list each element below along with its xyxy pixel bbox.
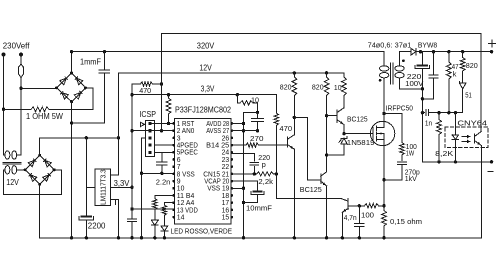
svg-text:3,3V: 3,3V xyxy=(114,179,131,188)
wire secondary bottom xyxy=(400,78,423,89)
wire LM1117 input from rect-12 xyxy=(86,186,95,188)
svg-text:14: 14 xyxy=(177,213,185,222)
svg-text:470: 470 xyxy=(279,124,292,133)
wire secondary return xyxy=(4,170,62,195)
svg-text:CNY64: CNY64 xyxy=(457,118,487,127)
wire source xyxy=(382,146,385,208)
diode 1N5819 xyxy=(327,137,375,156)
capacitor 220 100V xyxy=(405,52,430,91)
wire 3.3V vertical xyxy=(130,84,133,218)
wire pin28 AVDD xyxy=(232,123,244,125)
wire feedback left leg xyxy=(160,33,163,132)
resistor 820 (output) xyxy=(460,52,478,83)
wire mains left leg xyxy=(3,55,5,110)
wire ICSP pin4 PGED line xyxy=(155,144,174,146)
label LED ROSSO,VERDE xyxy=(171,226,233,235)
transformer T2 secondary xyxy=(368,41,412,78)
wire LM1117 gnd xyxy=(110,199,120,239)
svg-text:270: 270 xyxy=(250,134,264,143)
resistor 270 (B14 pin25) xyxy=(232,134,288,147)
capacitor 2.2n xyxy=(156,152,171,186)
opto LED xyxy=(452,113,458,162)
transformer T1 core xyxy=(3,162,21,164)
resistor 100 (sense) xyxy=(358,204,384,220)
diode zener 51 xyxy=(460,81,472,112)
wire B1 plus to 320V rail xyxy=(70,50,73,73)
wire 1ohm to bridge B1 AC2 xyxy=(86,88,93,110)
resistor 10 (AVDD) xyxy=(236,93,260,114)
resistor 1 OHM 5W xyxy=(2,107,93,121)
svg-text:LED ROSSO,VERDE: LED ROSSO,VERDE xyxy=(171,226,233,235)
resistor 100 1W snubber xyxy=(384,114,417,161)
opto arrows xyxy=(462,135,471,143)
wire CN15 node to Q4 xyxy=(276,174,341,199)
svg-text:BC125: BC125 xyxy=(300,185,322,194)
svg-text:100V: 100V xyxy=(405,79,424,88)
resistor + LED green (pin12) xyxy=(161,203,174,240)
wire pin27 AVSS xyxy=(232,130,258,132)
transistor Q1 xyxy=(259,117,296,239)
svg-text:820: 820 xyxy=(466,61,478,70)
svg-text:BC125: BC125 xyxy=(347,114,368,123)
opto phototransistor xyxy=(475,132,482,238)
svg-text:IRFPC50: IRFPC50 xyxy=(386,103,413,112)
resistor 2,2k (CN15) xyxy=(232,172,278,186)
svg-text:820: 820 xyxy=(280,82,292,91)
bridge rectifier B1 xyxy=(55,72,87,104)
svg-text:10mmF: 10mmF xyxy=(246,203,272,212)
svg-text:2,2k: 2,2k xyxy=(258,177,273,186)
wire Q3 emitter to gate xyxy=(344,133,370,135)
wire ICSP pin3 gnd drop xyxy=(140,138,146,240)
wire fuse leg to bridge B1 AC1 xyxy=(19,87,56,90)
svg-text:1mmF: 1mmF xyxy=(80,58,101,67)
svg-text:15: 15 xyxy=(222,213,230,222)
resistor + LED red (pin11) xyxy=(151,196,173,240)
node mains terminal L (230Veff) xyxy=(2,41,30,56)
wire feedback top rail xyxy=(162,32,482,34)
wire secondary return vertical xyxy=(421,89,424,162)
capacitor 100n 3.3V xyxy=(127,219,136,240)
transformer T1 secondary xyxy=(4,166,26,187)
wire 3.3V rail xyxy=(132,84,276,94)
wire rectified-12 line xyxy=(40,136,120,139)
svg-text:12V: 12V xyxy=(6,178,19,187)
svg-text:470: 470 xyxy=(139,86,151,95)
IC U1 P33FJ128MC802 xyxy=(172,106,233,225)
resistor 10 (Q3 collector) xyxy=(334,73,347,103)
transformer T1 primary xyxy=(4,151,22,159)
capacitor 270p 1kV xyxy=(384,162,420,183)
resistor 47k xyxy=(446,52,458,113)
wire B2 minus to ground bus xyxy=(39,184,41,238)
svg-text:320V: 320V xyxy=(197,41,215,50)
capacitor 10mmF (VCAP) xyxy=(232,181,272,212)
svg-text:10: 10 xyxy=(334,83,342,92)
resistor 8,2K xyxy=(435,113,453,162)
node mains terminal N xyxy=(19,53,23,57)
capacitor 1n xyxy=(422,110,462,128)
svg-text:LM1117T3.3: LM1117T3.3 xyxy=(101,169,108,205)
svg-text:1W: 1W xyxy=(406,148,415,157)
wire output plus rail xyxy=(416,40,496,54)
wire B1 minus down xyxy=(70,102,73,240)
wire AVDD node xyxy=(244,111,258,113)
wire VSS pin8 xyxy=(142,172,174,174)
resistor 0,15 ohm xyxy=(382,208,422,240)
wire feedback right leg xyxy=(480,33,482,131)
capacitor 2200 xyxy=(79,138,106,240)
fuse F1 xyxy=(18,55,24,89)
svg-text:0,15 ohm: 0,15 ohm xyxy=(390,217,422,226)
connector ICSP xyxy=(139,110,156,157)
svg-text:74ø0,6: 37ø1: 74ø0,6: 37ø1 xyxy=(368,41,412,50)
diode D2 BYW8 xyxy=(400,41,438,55)
bridge rectifier B2 xyxy=(24,154,56,186)
transistor Q4 (current limit) xyxy=(341,199,360,240)
svg-text:820: 820 xyxy=(312,82,324,91)
wire gnd vertical right of IC xyxy=(242,112,245,239)
svg-text:2.2n: 2.2n xyxy=(156,177,171,186)
transformer T2 core xyxy=(391,63,394,84)
svg-text:1N5819: 1N5819 xyxy=(347,138,375,147)
wire VDD pin13 xyxy=(132,208,174,210)
svg-text:1kV: 1kV xyxy=(405,174,418,183)
svg-text:1 OHM 5W: 1 OHM 5W xyxy=(26,112,64,121)
svg-text:BYW8: BYW8 xyxy=(418,41,437,50)
wire ICSP pin2 AN0 line xyxy=(132,130,174,132)
resistor 820 (Q1 collector) xyxy=(280,71,297,119)
svg-text:1n: 1n xyxy=(425,118,432,127)
svg-text:100: 100 xyxy=(361,210,374,219)
wire B2 plus up xyxy=(39,138,41,155)
wire drain xyxy=(382,78,385,122)
resistor 820 (Q2 collector) xyxy=(312,71,329,117)
wire 12V drop to LM1117 pin xyxy=(110,73,118,175)
capacitor 1mmF xyxy=(72,50,110,123)
capacitor output filter xyxy=(422,52,438,99)
wire 320V rail xyxy=(72,41,385,51)
wire 12V rail xyxy=(118,63,344,73)
capacitor AVDD decoupling xyxy=(252,112,264,132)
capacitor 220p xyxy=(232,153,270,174)
resistor 470 (CN15 pullup) xyxy=(274,95,292,174)
transistor Q3 BC125 xyxy=(327,103,368,135)
svg-text:p: p xyxy=(262,160,266,169)
transistor Q2 BC125 xyxy=(300,116,329,240)
wire Q1 collector to Q2 base xyxy=(294,117,321,180)
wire fuse leg down to transformer primary xyxy=(20,88,22,155)
svg-text:8,2K: 8,2K xyxy=(435,149,453,158)
wire ground bus xyxy=(40,237,482,239)
svg-text:ICSP: ICSP xyxy=(139,110,156,119)
svg-text:k: k xyxy=(453,69,457,78)
wire output minus xyxy=(422,160,493,171)
capacitor 4,7n xyxy=(344,206,364,240)
wire ICSP pin5 PGEC line xyxy=(155,151,174,153)
wire mains left leg lower xyxy=(3,109,5,152)
svg-text:51: 51 xyxy=(465,91,472,100)
wire pin19 VSS xyxy=(232,187,244,189)
transformer T2 primary xyxy=(379,52,389,83)
transistor M1 IRFPC50 xyxy=(370,103,413,145)
resistor 470 (AN0 divider) xyxy=(132,82,163,95)
resistor RST pullup xyxy=(166,93,171,125)
optocoupler U3 CNY64 xyxy=(445,118,488,147)
svg-text:10: 10 xyxy=(251,96,259,105)
svg-text:2200: 2200 xyxy=(88,222,106,231)
svg-text:4,7n: 4,7n xyxy=(344,213,357,222)
svg-text:3,3V: 3,3V xyxy=(201,84,215,93)
svg-text:12V: 12V xyxy=(199,63,212,72)
wire LM1117 3.3V out xyxy=(110,179,133,189)
svg-text:P33FJ128MC802: P33FJ128MC802 xyxy=(175,106,231,115)
regulator U2 LM1117T3.3 xyxy=(95,169,110,206)
svg-text:230Veff: 230Veff xyxy=(3,41,30,50)
wire ICSP pin1 RST line xyxy=(150,123,174,125)
